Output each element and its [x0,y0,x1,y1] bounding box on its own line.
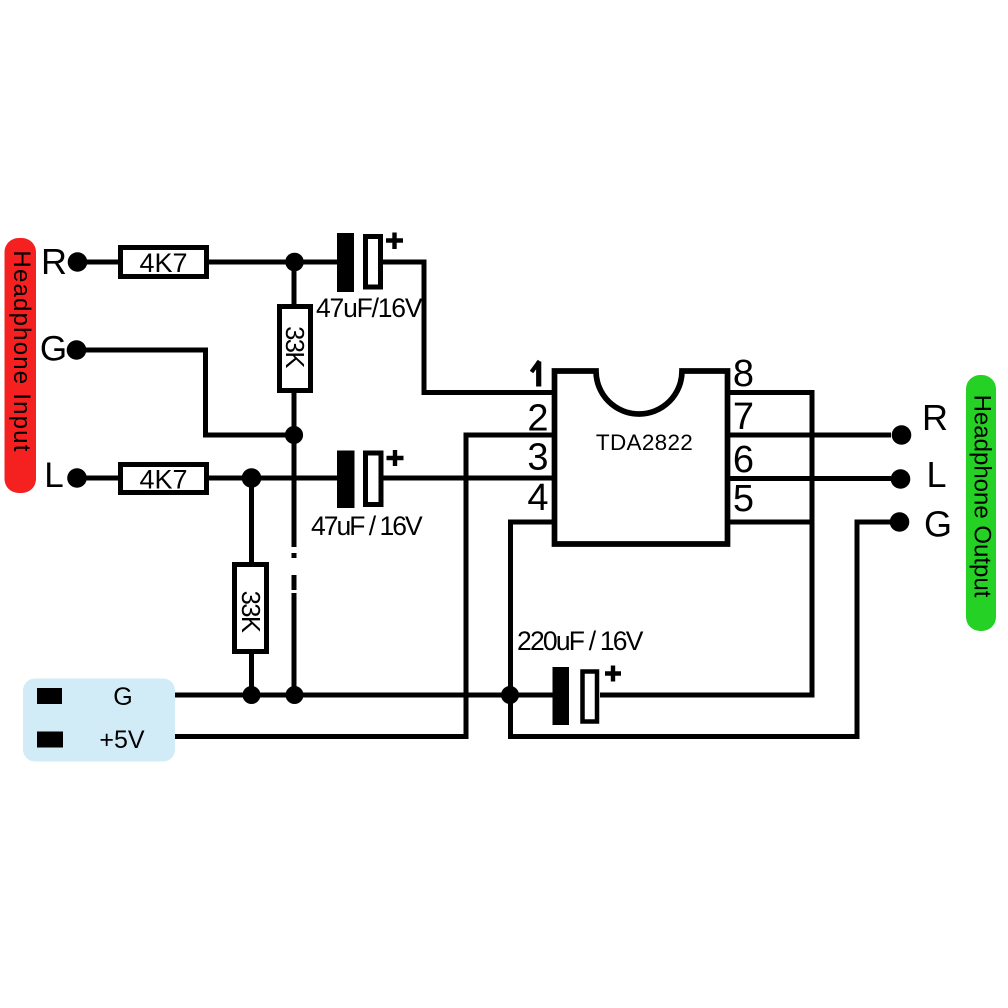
svg-text:Headphone Input: Headphone Input [8,250,35,452]
svg-text:47uF / 16V: 47uF / 16V [311,511,423,541]
svg-text:4K7: 4K7 [139,248,187,278]
svg-text:8: 8 [733,353,754,395]
svg-text:L: L [44,456,63,495]
svg-text:R: R [922,397,948,438]
svg-text:R: R [41,241,67,282]
svg-text:L: L [926,454,946,495]
svg-text:G: G [113,683,132,711]
svg-text:47uF/16V: 47uF/16V [316,293,423,323]
svg-text:+5V: +5V [99,726,145,754]
svg-text:6: 6 [733,439,754,481]
svg-text:220uF / 16V: 220uF / 16V [517,626,644,656]
svg-text:4K7: 4K7 [139,465,187,495]
svg-text:G: G [924,504,952,545]
svg-text:TDA2822: TDA2822 [596,430,693,455]
svg-text:33K: 33K [236,591,264,633]
svg-text:4: 4 [527,477,548,519]
svg-text:2: 2 [527,398,548,440]
svg-text:7: 7 [733,396,754,438]
svg-text:5: 5 [733,478,754,520]
svg-text:G: G [40,330,67,369]
svg-text:33K: 33K [280,326,308,368]
svg-text:Headphone Output: Headphone Output [969,395,996,598]
svg-text:3: 3 [527,437,548,479]
